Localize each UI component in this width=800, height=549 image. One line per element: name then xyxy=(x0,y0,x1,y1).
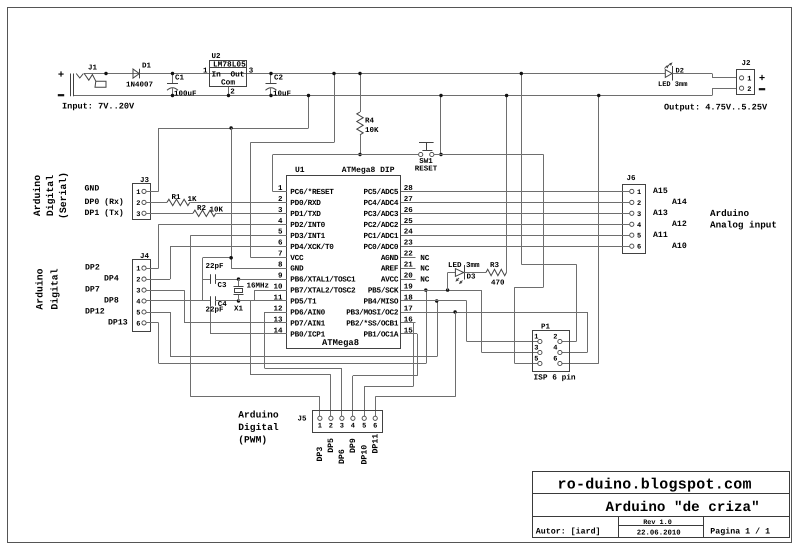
svg-text:1: 1 xyxy=(747,76,751,84)
svg-text:2: 2 xyxy=(136,277,140,285)
svg-text:PD5/T1: PD5/T1 xyxy=(290,298,317,307)
svg-text:A13: A13 xyxy=(653,209,668,218)
svg-text:3: 3 xyxy=(249,66,254,75)
svg-text:Com: Com xyxy=(221,79,235,88)
svg-text:1: 1 xyxy=(203,67,208,75)
svg-text:5: 5 xyxy=(362,423,366,431)
svg-text:ATMega8: ATMega8 xyxy=(322,338,359,348)
svg-text:6: 6 xyxy=(136,320,140,328)
svg-text:DP1 (Tx): DP1 (Tx) xyxy=(85,209,124,218)
svg-text:1: 1 xyxy=(534,334,538,342)
svg-text:6: 6 xyxy=(553,356,557,364)
svg-text:1N4007: 1N4007 xyxy=(126,81,153,90)
svg-text:4: 4 xyxy=(351,423,355,431)
svg-text:(PWM): (PWM) xyxy=(238,435,267,446)
svg-text:J2: J2 xyxy=(742,59,752,68)
svg-text:A12: A12 xyxy=(672,220,687,229)
svg-text:PD4/XCK/T0: PD4/XCK/T0 xyxy=(290,243,334,252)
svg-text:+: + xyxy=(58,69,64,81)
svg-text:1: 1 xyxy=(136,189,140,197)
svg-text:22.06.2010: 22.06.2010 xyxy=(637,530,681,538)
svg-text:DP12: DP12 xyxy=(85,308,105,317)
svg-text:PD3/INT1: PD3/INT1 xyxy=(290,232,325,241)
svg-text:PB4/MISO: PB4/MISO xyxy=(364,298,399,307)
svg-text:2: 2 xyxy=(136,200,140,208)
svg-text:13: 13 xyxy=(273,315,283,324)
svg-text:2: 2 xyxy=(553,334,557,342)
svg-text:DP5: DP5 xyxy=(327,438,336,453)
svg-text:PB7/XTAL2/TOSC2: PB7/XTAL2/TOSC2 xyxy=(290,287,356,296)
svg-text:10K: 10K xyxy=(365,126,379,135)
svg-text:5: 5 xyxy=(136,310,140,318)
svg-text:DP13: DP13 xyxy=(108,319,128,328)
svg-text:GND: GND xyxy=(290,265,304,274)
svg-text:R3: R3 xyxy=(490,261,500,270)
svg-text:Digital: Digital xyxy=(45,175,56,216)
svg-text:DP3: DP3 xyxy=(316,447,325,462)
svg-text:4: 4 xyxy=(553,345,557,353)
svg-text:P1: P1 xyxy=(541,324,551,332)
svg-text:1: 1 xyxy=(136,266,140,274)
svg-text:RESET: RESET xyxy=(415,165,438,174)
svg-text:Out: Out xyxy=(230,70,244,79)
svg-text:Arduino: Arduino xyxy=(32,175,43,216)
svg-text:VCC: VCC xyxy=(290,254,304,263)
svg-text:A14: A14 xyxy=(672,198,687,207)
svg-text:Arduino: Arduino xyxy=(238,410,279,421)
svg-text:4: 4 xyxy=(637,222,641,230)
svg-text:J5: J5 xyxy=(297,416,307,424)
svg-text:A10: A10 xyxy=(672,242,687,251)
svg-text:100uF: 100uF xyxy=(174,89,197,98)
svg-text:D1: D1 xyxy=(142,63,152,71)
svg-text:DP6: DP6 xyxy=(338,449,347,464)
svg-text:ISP 6 pin: ISP 6 pin xyxy=(534,374,576,383)
svg-text:PC5/ADC5: PC5/ADC5 xyxy=(364,188,399,197)
svg-text:C3: C3 xyxy=(218,281,228,290)
svg-text:PB2/*SS/OCB1: PB2/*SS/OCB1 xyxy=(346,320,399,329)
svg-text:14: 14 xyxy=(273,327,283,335)
svg-text:PC6/*RESET: PC6/*RESET xyxy=(290,188,334,197)
svg-text:PD6/AIN0: PD6/AIN0 xyxy=(290,309,325,318)
svg-text:1K: 1K xyxy=(188,196,198,204)
svg-text:11: 11 xyxy=(273,295,283,303)
svg-text:4: 4 xyxy=(136,299,140,307)
svg-text:DP4: DP4 xyxy=(104,275,119,284)
svg-text:6: 6 xyxy=(637,244,641,252)
svg-text:GND: GND xyxy=(85,185,100,194)
svg-text:NC: NC xyxy=(420,276,430,285)
svg-text:AGND: AGND xyxy=(381,254,399,263)
svg-text:5: 5 xyxy=(534,356,538,364)
svg-text:PC0/ADC0: PC0/ADC0 xyxy=(364,243,399,252)
svg-text:PC4/ADC4: PC4/ADC4 xyxy=(364,199,399,208)
svg-text:DP8: DP8 xyxy=(104,297,119,306)
svg-text:J4: J4 xyxy=(140,253,150,261)
svg-text:U2: U2 xyxy=(212,52,222,61)
svg-text:PD2/INT0: PD2/INT0 xyxy=(290,221,325,230)
svg-text:PB5/SCK: PB5/SCK xyxy=(368,287,399,296)
svg-text:R2: R2 xyxy=(197,204,207,213)
svg-text:3: 3 xyxy=(534,345,538,353)
svg-text:PB0/ICP1: PB0/ICP1 xyxy=(290,331,325,340)
svg-text:3: 3 xyxy=(637,211,641,219)
svg-text:D3: D3 xyxy=(467,273,477,282)
svg-text:1: 1 xyxy=(637,189,641,197)
svg-text:PD0/RXD: PD0/RXD xyxy=(290,199,321,208)
svg-text:22pF: 22pF xyxy=(206,262,225,271)
svg-text:6: 6 xyxy=(373,423,377,431)
svg-text:10uF: 10uF xyxy=(273,89,292,98)
svg-text:J3: J3 xyxy=(140,176,150,185)
svg-text:AREF: AREF xyxy=(381,265,399,274)
svg-text:R1: R1 xyxy=(172,194,182,202)
svg-text:2: 2 xyxy=(637,200,641,208)
svg-text:PB6/XTAL1/TOSC1: PB6/XTAL1/TOSC1 xyxy=(290,276,356,285)
svg-text:Autor: [iard]: Autor: [iard] xyxy=(536,526,601,536)
svg-text:PD7/AIN1: PD7/AIN1 xyxy=(290,320,325,329)
svg-text:18: 18 xyxy=(404,294,414,303)
svg-text:PC2/ADC2: PC2/ADC2 xyxy=(364,221,399,230)
svg-text:PB3/MOSI/OC2: PB3/MOSI/OC2 xyxy=(346,309,399,318)
svg-text:2: 2 xyxy=(230,87,235,96)
svg-text:In: In xyxy=(212,70,222,79)
svg-text:10K: 10K xyxy=(210,205,224,214)
svg-text:PC1/ADC1: PC1/ADC1 xyxy=(364,232,399,241)
svg-text:ATMega8 DIP: ATMega8 DIP xyxy=(342,166,395,175)
svg-text:Pagina 1 / 1: Pagina 1 / 1 xyxy=(710,526,770,536)
svg-text:ro-duino.blogspot.com: ro-duino.blogspot.com xyxy=(558,476,752,493)
svg-text:+: + xyxy=(759,73,765,85)
svg-text:C1: C1 xyxy=(175,74,185,83)
svg-text:16: 16 xyxy=(404,315,414,324)
svg-text:Analog input: Analog input xyxy=(710,220,777,231)
svg-text:LM78L05: LM78L05 xyxy=(213,61,246,70)
svg-text:DP11: DP11 xyxy=(371,434,380,454)
svg-text:A11: A11 xyxy=(653,231,668,240)
svg-text:NC: NC xyxy=(420,254,430,263)
svg-text:Arduino: Arduino xyxy=(710,208,749,219)
svg-text:DP0 (Rx): DP0 (Rx) xyxy=(85,198,124,207)
svg-text:C2: C2 xyxy=(274,74,284,83)
svg-text:3: 3 xyxy=(340,423,344,431)
svg-text:Output: 4.75V..5.25V: Output: 4.75V..5.25V xyxy=(664,102,768,112)
svg-text:AVCC: AVCC xyxy=(381,276,399,285)
svg-text:A15: A15 xyxy=(653,187,668,196)
svg-text:J6: J6 xyxy=(627,174,637,183)
svg-text:X1: X1 xyxy=(234,306,244,314)
svg-text:PC3/ADC3: PC3/ADC3 xyxy=(364,210,399,219)
svg-text:Digital: Digital xyxy=(238,422,279,433)
svg-text:(Serial): (Serial) xyxy=(58,172,69,219)
svg-text:16MHz: 16MHz xyxy=(247,282,270,291)
svg-text:D2: D2 xyxy=(676,68,684,76)
svg-text:PD1/TXD: PD1/TXD xyxy=(290,210,321,219)
svg-text:470: 470 xyxy=(491,279,505,288)
svg-text:2: 2 xyxy=(329,423,333,431)
svg-text:U1: U1 xyxy=(295,166,305,175)
svg-text:15: 15 xyxy=(404,327,414,335)
svg-text:R4: R4 xyxy=(365,117,375,125)
svg-text:DP10: DP10 xyxy=(360,445,369,465)
svg-text:DP7: DP7 xyxy=(85,286,100,295)
svg-text:Input: 7V..20V: Input: 7V..20V xyxy=(62,101,135,111)
svg-text:LED 3mm: LED 3mm xyxy=(658,81,687,89)
svg-text:Digital: Digital xyxy=(50,268,61,309)
svg-text:3: 3 xyxy=(136,211,140,219)
svg-text:Rev 1.0: Rev 1.0 xyxy=(643,519,672,527)
svg-text:5: 5 xyxy=(637,233,641,241)
svg-text:DP2: DP2 xyxy=(85,264,100,273)
svg-text:DP9: DP9 xyxy=(349,438,358,453)
svg-text:2: 2 xyxy=(747,86,751,94)
svg-text:1: 1 xyxy=(318,423,322,431)
svg-text:3: 3 xyxy=(136,288,140,296)
svg-text:PB1/OC1A: PB1/OC1A xyxy=(364,331,399,340)
svg-text:LED 3mm: LED 3mm xyxy=(448,261,480,270)
svg-text:NC: NC xyxy=(420,265,430,274)
svg-text:Arduino: Arduino xyxy=(35,268,46,309)
svg-text:22pF: 22pF xyxy=(206,305,225,314)
svg-text:Arduino "de criza": Arduino "de criza" xyxy=(606,500,760,516)
svg-text:J1: J1 xyxy=(88,65,98,73)
